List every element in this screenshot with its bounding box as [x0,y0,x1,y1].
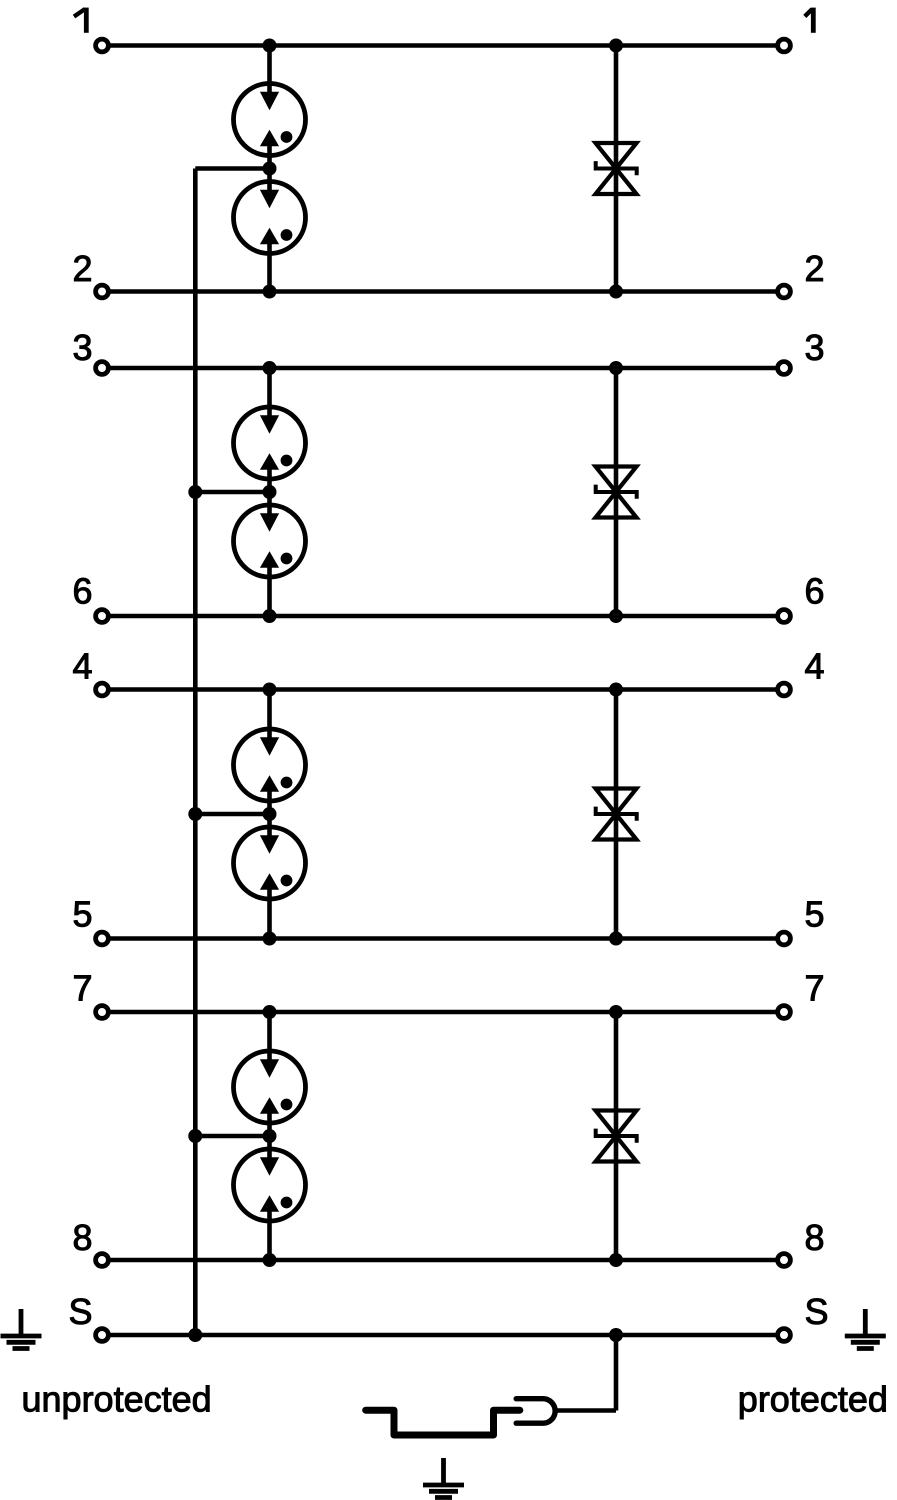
svg-text:2: 2 [805,248,825,289]
terminal 4 protected side [778,683,791,696]
gas discharge tube lower, pair 1-2 [234,181,306,255]
junction line 2 / suppressor branch [609,285,623,299]
junction line 4 / suppressor branch [609,683,623,697]
junction bus tap pair 4-5 [188,807,202,821]
terminal 2 protected side [778,285,791,298]
DIN rail clamp fork [516,1399,555,1424]
terminal 8 protected side [778,1254,791,1267]
terminal 8 unprotected side [96,1254,109,1267]
wire ground bus vertical [193,169,198,1336]
svg-text:7: 7 [72,968,92,1009]
wire suppressor diode branch pair 4-5 [614,690,619,939]
wire line 7 (horizontal) [102,1010,784,1015]
wire line 1 (horizontal) [102,43,784,48]
wire GDT center tap to bus, pair 4-5 [195,812,269,817]
bidirectional suppressor diode pair 4-5 [596,789,637,840]
junction bus tap pair 7-8 [188,1129,202,1143]
svg-text:S: S [68,1291,92,1332]
terminal 6 unprotected side [96,610,109,623]
junction line 1 / GDT branch [263,39,277,53]
svg-text:5: 5 [805,894,825,935]
junction line S / earth drop [609,1328,623,1342]
junction bus / line S [188,1328,202,1342]
wire GDT branch pair 3-6 [267,368,272,616]
junction line 8 / GDT branch [263,1253,277,1267]
junction line 6 / GDT branch [263,609,277,623]
svg-text:5: 5 [72,894,92,935]
junction GDT midpoint pair 1-2 [263,162,277,176]
bidirectional suppressor diode pair 1-2 [596,143,637,194]
terminal S protected side [778,1329,791,1342]
svg-text:7: 7 [805,968,825,1009]
wire GDT center tap to bus, pair 3-6 [195,490,269,495]
junction line 4 / GDT branch [263,683,277,697]
junction line 8 / suppressor branch [609,1253,623,1267]
svg-text:unprotected: unprotected [22,1379,212,1420]
wire line 3 (horizontal) [102,366,784,371]
terminal 7 protected side [778,1006,791,1019]
terminal 4 unprotected side [96,683,109,696]
svg-text:2: 2 [72,248,92,289]
junction GDT midpoint pair 4-5 [263,807,277,821]
svg-text:4: 4 [72,646,92,687]
junction line 3 / GDT branch [263,361,277,375]
svg-text:3: 3 [72,327,92,368]
bidirectional suppressor diode pair 3-6 [596,467,637,518]
svg-text:4: 4 [805,646,825,687]
terminal 5 protected side [778,932,791,945]
terminal 2 unprotected side [96,285,109,298]
terminal 7 unprotected side [96,1006,109,1019]
wire earth drop vertical [614,1335,619,1411]
wire GDT center tap to bus, pair 1-2 [195,166,269,171]
gas discharge tube upper, pair 1-2 [234,83,306,157]
svg-text:8: 8 [805,1217,825,1258]
junction GDT midpoint pair 7-8 [263,1129,277,1143]
junction line 7 / suppressor branch [609,1005,623,1019]
gas discharge tube lower, pair 4-5 [234,826,306,900]
terminal 3 unprotected side [96,362,109,375]
svg-text:protected: protected [738,1379,888,1420]
wire line 8 (horizontal) [102,1258,784,1263]
svg-text:3: 3 [805,327,825,368]
svg-text:6: 6 [805,571,825,612]
wire GDT branch pair 7-8 [267,1012,272,1260]
junction line 2 / GDT branch [263,285,277,299]
gas discharge tube upper, pair 4-5 [234,728,306,802]
ground symbol unprotected side [1,1309,42,1349]
junction line 3 / suppressor branch [609,361,623,375]
wire GDT branch pair 4-5 [267,690,272,939]
wire suppressor diode branch pair 3-6 [614,368,619,616]
wire GDT branch pair 1-2 [267,46,272,292]
wire suppressor diode branch pair 7-8 [614,1012,619,1260]
terminal 6 protected side [778,610,791,623]
gas discharge tube lower, pair 3-6 [234,504,306,578]
gas discharge tube lower, pair 7-8 [234,1148,306,1222]
svg-text:8: 8 [72,1217,92,1258]
wire GDT center tap to bus, pair 7-8 [195,1134,269,1139]
junction bus tap pair 3-6 [188,485,202,499]
svg-text:6: 6 [72,571,92,612]
junction line 1 / suppressor branch [609,39,623,53]
label 1 left [74,8,86,33]
bidirectional suppressor diode pair 7-8 [596,1111,637,1162]
wire line 5 (horizontal) [102,936,784,941]
terminal 3 protected side [778,362,791,375]
wire clamp to earth drop [554,1408,616,1413]
label 1 right [805,8,814,33]
wire suppressor diode branch pair 1-2 [614,46,619,292]
ground symbol below DIN rail [423,1458,464,1498]
terminal 5 unprotected side [96,932,109,945]
terminal 1 unprotected side [96,39,109,52]
terminal S unprotected side [96,1329,109,1342]
wire line 6 (horizontal) [102,614,784,619]
junction line 6 / suppressor branch [609,609,623,623]
svg-text:S: S [805,1291,829,1332]
junction GDT midpoint pair 3-6 [263,485,277,499]
gas discharge tube upper, pair 3-6 [234,406,306,480]
wire line 2 (horizontal) [102,289,784,294]
ground symbol protected side [845,1309,886,1349]
junction line 5 / GDT branch [263,932,277,946]
junction line 5 / suppressor branch [609,932,623,946]
wire line 4 (horizontal) [102,687,784,692]
terminal 1 protected side [778,39,791,52]
DIN rail [366,1410,520,1435]
wire line S (horizontal) [102,1333,784,1338]
junction line 7 / GDT branch [263,1005,277,1019]
gas discharge tube upper, pair 7-8 [234,1050,306,1124]
